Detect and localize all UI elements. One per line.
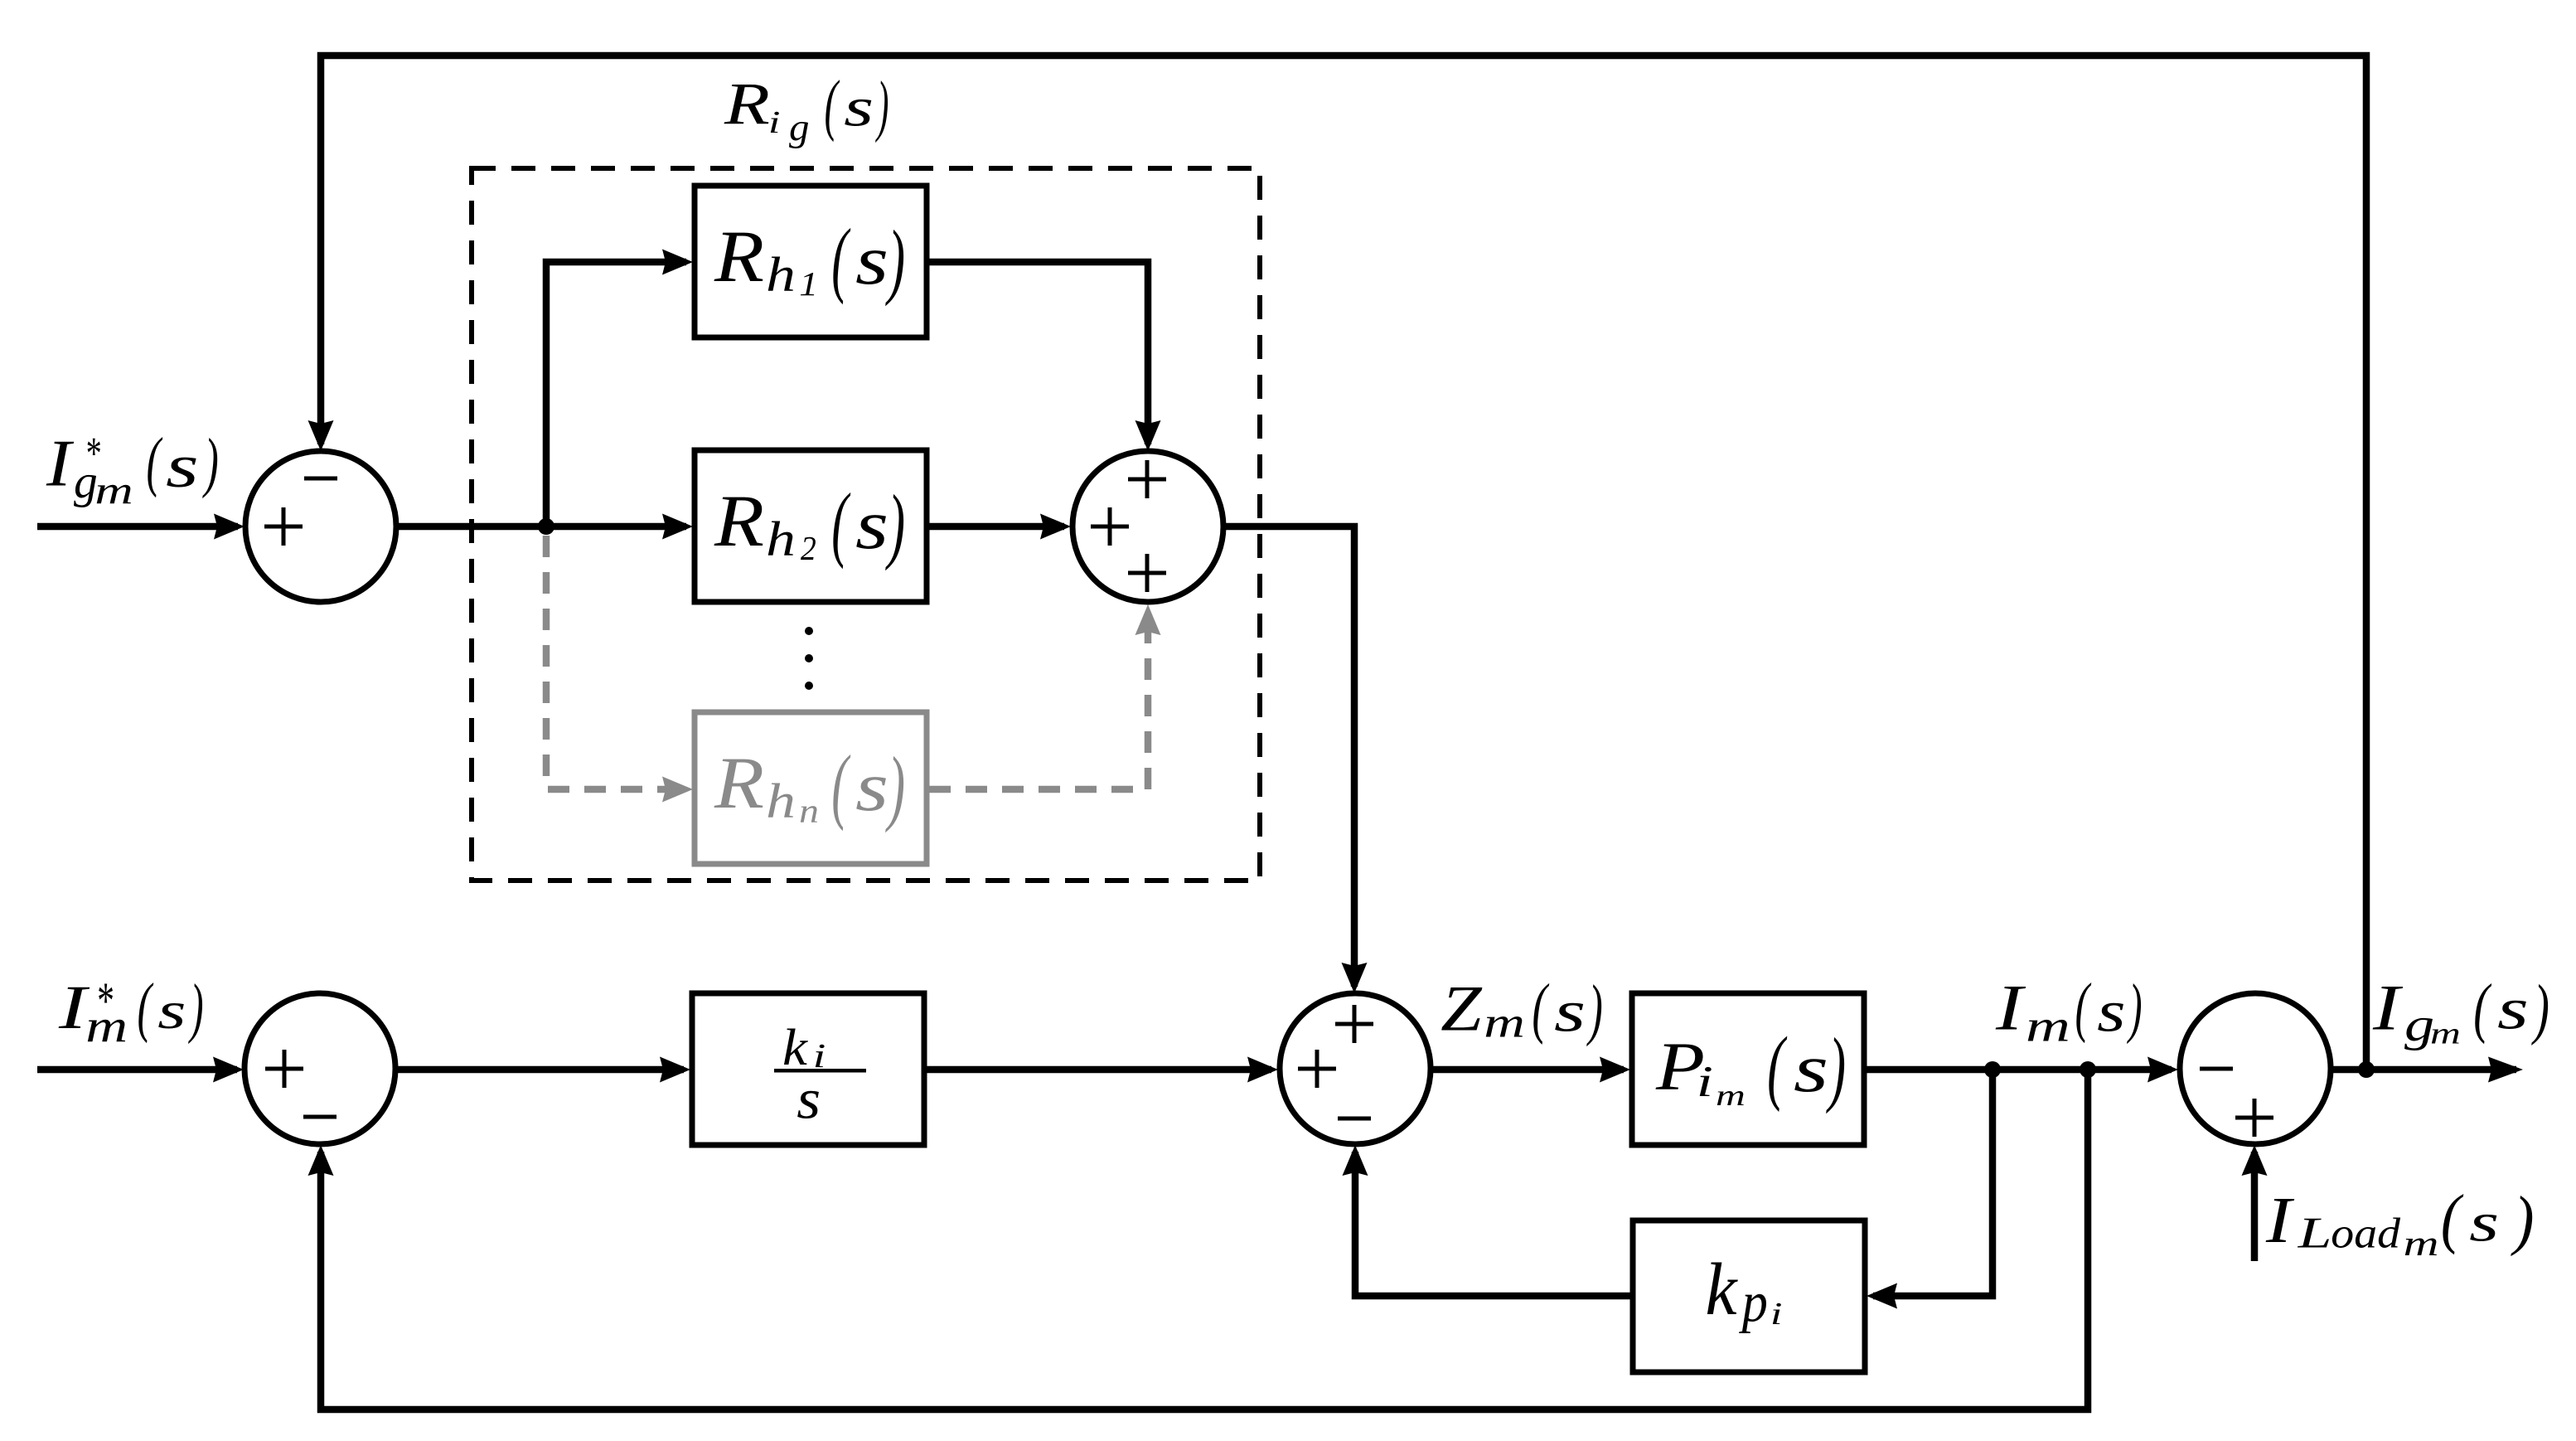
svg-text:s: s xyxy=(855,486,889,564)
svg-text:R: R xyxy=(714,742,764,824)
summing junction S3 xyxy=(245,993,395,1144)
svg-text:(: ( xyxy=(1532,971,1549,1046)
svg-text:g: g xyxy=(789,106,809,149)
svg-text:s: s xyxy=(166,433,199,500)
wire: Im branch down into kpi block right side xyxy=(1873,1070,1993,1296)
S4 minus sign bottom xyxy=(1338,1117,1371,1121)
summing junction S5 xyxy=(2180,993,2331,1144)
summing junction S2 xyxy=(1073,451,1223,602)
S3 plus sign xyxy=(265,1050,303,1088)
S2 plus sign top xyxy=(1128,460,1166,498)
svg-text:I: I xyxy=(2265,1183,2295,1257)
S3 minus sign xyxy=(303,1115,337,1119)
S5 minus sign xyxy=(2200,1067,2233,1071)
svg-text:): ) xyxy=(2126,972,2142,1045)
wire: S5 output Igm to the right xyxy=(2331,1066,2516,1074)
svg-text:): ) xyxy=(1825,1021,1846,1114)
svg-text:R: R xyxy=(714,216,764,298)
block Rh2 xyxy=(695,450,927,602)
svg-text:1: 1 xyxy=(799,265,818,303)
label Zm(s) xyxy=(1441,970,1603,1047)
svg-text:h: h xyxy=(766,248,796,302)
wire: branch up to Rh1 input xyxy=(546,262,686,526)
svg-text:R: R xyxy=(724,70,770,136)
block ki/s integrator xyxy=(692,993,924,1145)
block Rh1 xyxy=(695,186,927,337)
svg-text:s: s xyxy=(1554,978,1586,1044)
wire: S2 output down to summing junction S4 top xyxy=(1223,526,1354,987)
svg-text:s: s xyxy=(855,748,889,826)
svg-text:m: m xyxy=(94,469,133,513)
svg-text:s: s xyxy=(855,221,889,299)
S4 plus sign left xyxy=(1298,1050,1336,1088)
svg-text:(: ( xyxy=(138,970,154,1044)
svg-text:): ) xyxy=(884,740,905,833)
wire: ILoad input up into S5 bottom xyxy=(2251,1152,2259,1261)
dashed box: resonant controller group Rig(s) xyxy=(472,168,1260,881)
svg-text:s: s xyxy=(2097,979,2125,1045)
svg-text:): ) xyxy=(875,67,889,143)
label Rhn(s) (gray) xyxy=(714,738,905,833)
svg-text:I: I xyxy=(1995,973,2026,1045)
node: junction dot feeding bottom feedback xyxy=(2080,1061,2096,1078)
svg-text:m: m xyxy=(1484,999,1525,1046)
svg-text:R: R xyxy=(714,480,764,562)
svg-text:(: ( xyxy=(147,425,163,498)
wire: bottom feedback from Im down across and up into S3 bottom xyxy=(321,1070,2088,1409)
svg-text:): ) xyxy=(1586,970,1603,1047)
S1 plus sign xyxy=(264,507,303,546)
node: branch junction dot on S1 output xyxy=(538,518,554,535)
svg-text:k: k xyxy=(1705,1249,1738,1331)
svg-text:h: h xyxy=(766,512,796,566)
label I*m(s) reference input xyxy=(58,970,204,1052)
label Im(s) xyxy=(1995,970,2143,1051)
svg-text:): ) xyxy=(884,214,905,307)
svg-text:s: s xyxy=(1794,1030,1828,1106)
wire: input I*m into summing junction S3 xyxy=(37,1066,237,1074)
wire: input I*gm into S1 xyxy=(37,523,238,531)
svg-text:m: m xyxy=(2430,1016,2461,1050)
svg-text:oad: oad xyxy=(2331,1209,2401,1257)
wire: ki/s output to summing junction S4 left xyxy=(924,1066,1271,1074)
label ki over s inside integrator block xyxy=(782,1019,826,1131)
label Igm(s) output xyxy=(2372,971,2549,1051)
svg-text:): ) xyxy=(187,972,203,1045)
svg-text:L: L xyxy=(2298,1208,2332,1257)
label Rig(s) on dashed box xyxy=(724,65,889,149)
summing junction S4 xyxy=(1280,993,1431,1144)
label Rh2(s) xyxy=(714,476,905,571)
svg-text:Z: Z xyxy=(1441,973,1483,1046)
label Pim(s) xyxy=(1655,1021,1846,1114)
svg-text:n: n xyxy=(799,791,819,829)
svg-text:m: m xyxy=(2026,1002,2070,1051)
block kpi gain xyxy=(1633,1220,1865,1372)
wire: S3 output to ki/s block xyxy=(395,1066,684,1074)
svg-text:s: s xyxy=(797,1067,821,1131)
svg-text:m: m xyxy=(85,1000,128,1052)
S2 plus sign left xyxy=(1091,507,1129,546)
svg-text:): ) xyxy=(2511,1182,2535,1257)
wire: Rh1 output to summing junction S2 top xyxy=(929,262,1148,444)
S4 plus sign top xyxy=(1335,1005,1373,1043)
svg-text:s: s xyxy=(844,77,874,138)
svg-text:p: p xyxy=(1739,1270,1768,1334)
svg-text:): ) xyxy=(202,425,219,499)
svg-text:i: i xyxy=(1770,1296,1783,1331)
svg-text:I: I xyxy=(2372,973,2404,1045)
svg-text:m: m xyxy=(2404,1225,2439,1264)
S1 minus sign xyxy=(304,477,337,481)
svg-text:s: s xyxy=(2469,1192,2499,1254)
label ILoadm(s) disturbance input xyxy=(2265,1182,2535,1264)
wire: Rh2 output to summing junction S2 left xyxy=(929,523,1064,531)
node: junction dot feeding kpi xyxy=(1984,1061,2001,1078)
svg-text:m: m xyxy=(1716,1079,1746,1112)
wire: kpi output left and up into S4 bottom xyxy=(1355,1152,1633,1296)
block Pim plant xyxy=(1632,993,1864,1145)
svg-text:I: I xyxy=(46,426,75,500)
wire: Pim output to summing junction S5 left xyxy=(1864,1066,2172,1074)
svg-text:(: ( xyxy=(2075,970,2092,1044)
svg-text:h: h xyxy=(766,774,796,828)
vertical ellipsis dots xyxy=(805,627,813,635)
summing junction S1 xyxy=(245,451,396,602)
label Rh1(s) xyxy=(714,211,905,307)
svg-text:i: i xyxy=(768,104,781,139)
wire: S1 output to Rh2 input xyxy=(396,523,686,531)
svg-text:s: s xyxy=(2497,977,2529,1041)
label kpi inside gain block xyxy=(1705,1249,1782,1334)
svg-text:(: ( xyxy=(2473,971,2491,1045)
wire: S4 output Zm to Pim block xyxy=(1431,1066,1624,1074)
S5 plus sign xyxy=(2235,1099,2273,1137)
svg-text:i: i xyxy=(1697,1057,1713,1106)
fraction bar of ki/s xyxy=(774,1069,866,1073)
wire (gray dashed): branch down from junction to Rhn input xyxy=(546,536,683,789)
svg-text:): ) xyxy=(2531,972,2549,1046)
svg-text:s: s xyxy=(157,981,186,1040)
S2 plus sign bottom xyxy=(1128,554,1166,592)
wire (gray dashed): Rhn output to S2 bottom xyxy=(929,614,1148,789)
block Rhn (gray) xyxy=(695,712,927,864)
wire: feedback from Igm output up and across top into summing junction S1 xyxy=(321,56,2366,1070)
svg-text:): ) xyxy=(884,478,905,571)
node: junction dot on Igm output for top feedback xyxy=(2358,1061,2375,1078)
label I*gm(s) reference input xyxy=(46,425,219,513)
svg-text:2: 2 xyxy=(801,531,816,568)
